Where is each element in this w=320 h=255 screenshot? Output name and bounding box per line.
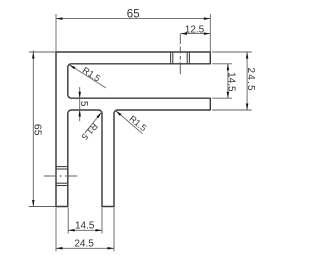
- dimension 12.5 (top right): [180, 24, 210, 35]
- leader R1.5 (top slot corner): [69, 64, 106, 88]
- dimension 24.5 (bottom overall): [56, 208, 114, 252]
- svg-text:24.5: 24.5: [245, 67, 256, 91]
- leader R1.5 (vertical slot corner): [79, 112, 102, 142]
- dimension 65 (left side): [29, 51, 56, 207]
- svg-text:5: 5: [78, 101, 89, 107]
- svg-text:14.5: 14.5: [226, 72, 237, 92]
- dimension 65 (top): [56, 8, 210, 51]
- hole H1 lines (top arm screw hole section): [171, 52, 190, 64]
- svg-text:12.5: 12.5: [185, 24, 205, 35]
- dimension 24.5 (right side overall): [212, 52, 256, 110]
- svg-text:14.5: 14.5: [75, 220, 95, 231]
- leader R1.5 (inner L corner): [115, 110, 148, 134]
- svg-text:65: 65: [32, 124, 44, 136]
- part outline: L-shaped clamp body with two open slots, R1.5 corners: [56, 52, 210, 207]
- svg-text:24.5: 24.5: [74, 239, 94, 250]
- dimension 5 (wall between slots): [78, 87, 89, 121]
- dimension 14.5 (right side slot): [212, 64, 237, 98]
- svg-text:65: 65: [127, 8, 140, 20]
- hole H2 lines (left arm screw hole section): [56, 167, 68, 186]
- hole H1 centerline: [179, 34, 181, 75]
- hole H2 centerline: [44, 175, 78, 177]
- dimension 14.5 (bottom slot): [68, 208, 102, 234]
